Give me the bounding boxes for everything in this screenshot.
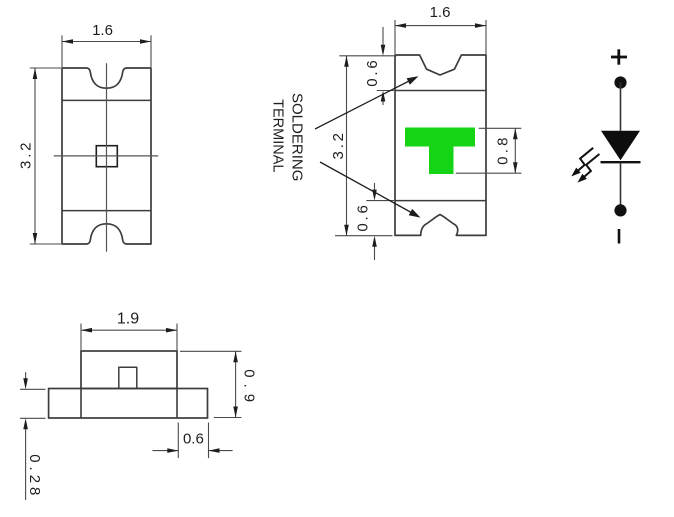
svg-text:0.6: 0.6 <box>364 57 381 86</box>
svg-text:0.6: 0.6 <box>183 431 204 448</box>
svg-text:0.28: 0.28 <box>26 454 43 499</box>
svg-text:0.8: 0.8 <box>495 134 512 164</box>
svg-text:1.6: 1.6 <box>430 4 451 21</box>
svg-text:0.9: 0.9 <box>241 369 258 408</box>
svg-text:3.2: 3.2 <box>330 130 347 159</box>
svg-text:1.9: 1.9 <box>117 311 139 328</box>
svg-text:0.6: 0.6 <box>355 202 372 231</box>
svg-text:SOLDERING: SOLDERING <box>288 93 305 181</box>
svg-text:3.2: 3.2 <box>18 140 35 169</box>
svg-text:TERMINAL: TERMINAL <box>270 99 286 172</box>
svg-text:1.6: 1.6 <box>92 22 113 39</box>
